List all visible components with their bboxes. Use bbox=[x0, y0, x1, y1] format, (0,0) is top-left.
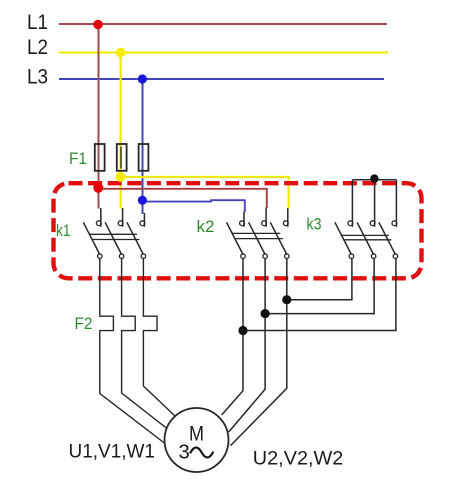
contactor k3 linkage bbox=[341, 234, 389, 236]
wire L3 drop to fuse F1 and k1 bbox=[142, 79, 144, 214]
wire k3 pole1 to junction bbox=[287, 258, 352, 299]
wire k1 pole3 through F2 to motor W1 bbox=[143, 258, 175, 416]
contactor k2 linkage bbox=[232, 232, 280, 234]
svg-text:3: 3 bbox=[179, 442, 190, 464]
junction dot fuse 2 output bbox=[115, 172, 125, 182]
wire k2 pole2 to motor V2 bbox=[229, 258, 265, 432]
contactor k3 pole 2 bbox=[374, 180, 376, 227]
wire k3 pole2 to junction bbox=[265, 258, 374, 313]
contactor k2 pole 2 bbox=[265, 208, 267, 227]
wire L1 phase line bbox=[59, 23, 387, 25]
contactor k1 linkage bbox=[89, 233, 137, 235]
wire fuse 2 output to k2 pole 3 bbox=[121, 177, 289, 209]
wire L3 phase line bbox=[59, 78, 384, 80]
wire k3 star bridge bbox=[352, 179, 396, 181]
svg-text:M: M bbox=[189, 423, 204, 446]
motor sine symbol bbox=[191, 448, 213, 458]
fuse F1 pole 2 bbox=[117, 144, 127, 171]
wire k1 pole1 through F2 to motor U1 bbox=[100, 258, 165, 443]
fuse F1 pole 1 bbox=[95, 144, 105, 171]
wire L2 phase line bbox=[59, 51, 388, 53]
svg-text:k2: k2 bbox=[197, 217, 215, 236]
wire k3 pole3 to junction bbox=[243, 258, 396, 330]
contactor k3 pole 3 bbox=[395, 180, 397, 227]
wire k1 pole2 through F2 to motor V1 bbox=[122, 258, 167, 428]
junction dot W2 bbox=[282, 295, 291, 304]
contactor k1 pole 1 bbox=[100, 208, 102, 227]
motor M1 circle bbox=[165, 408, 229, 472]
fuse F1 pole 3 bbox=[139, 144, 149, 171]
svg-text:L1: L1 bbox=[27, 11, 48, 34]
contactor k3 pole 1 bbox=[351, 180, 353, 227]
junction dot fuse 3 output bbox=[138, 196, 147, 205]
junction dot V2 bbox=[261, 309, 270, 318]
contactor k1 pole 3 bbox=[143, 213, 145, 227]
wire fuse 3 output to k2 pole 1 bbox=[143, 200, 245, 212]
contactor k1 pole 2 bbox=[122, 208, 124, 227]
contactor k2 pole 3 bbox=[287, 208, 289, 227]
svg-text:F1: F1 bbox=[69, 149, 87, 168]
svg-text:U1,V1,W1: U1,V1,W1 bbox=[69, 442, 156, 463]
junction dot fuse 1 output bbox=[93, 183, 103, 193]
svg-text:k1: k1 bbox=[56, 221, 71, 240]
svg-text:L3: L3 bbox=[27, 66, 48, 89]
junction dot L1 bbox=[93, 20, 103, 30]
wire k2 pole1 to motor U2 bbox=[222, 258, 243, 415]
wire L1 drop to fuse F1 and k1 bbox=[98, 24, 100, 209]
junction dot U2 bbox=[238, 326, 247, 335]
wire fuse 1 output to k2 pole 2 bbox=[99, 189, 267, 208]
junction dot L3 bbox=[138, 74, 147, 83]
svg-text:F2: F2 bbox=[75, 314, 93, 333]
svg-text:U2,V2,W2: U2,V2,W2 bbox=[253, 448, 343, 470]
wire L2 drop to fuse F1 and k1 bbox=[119, 53, 121, 209]
contactor k2 pole 1 bbox=[243, 212, 245, 227]
svg-text:L2: L2 bbox=[27, 36, 48, 59]
junction dot L2 bbox=[116, 48, 126, 58]
wire k2 pole3 to motor W2 bbox=[231, 258, 287, 445]
contactor group enclosure (dashed) bbox=[54, 183, 422, 278]
junction dot k3 star point bbox=[370, 174, 378, 182]
svg-text:k3: k3 bbox=[307, 214, 322, 233]
